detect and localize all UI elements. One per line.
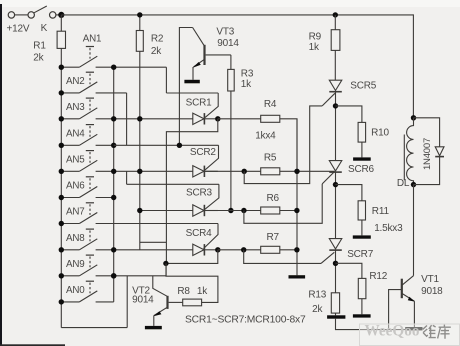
wire right rail drop [412, 14, 414, 117]
wire SCR1 gate hook [205, 93, 218, 118]
node SCR4 cathode [215, 247, 220, 252]
node key-bus junction row 4 [111, 143, 116, 148]
svg-text:1k: 1k [309, 42, 320, 53]
node bus junction AN1 [59, 65, 64, 70]
pushbutton switch AN3 [61, 118, 79, 120]
node bus junction AN8 [59, 247, 64, 252]
wire R3 column [230, 91, 232, 211]
svg-text:VT1: VT1 [421, 274, 439, 285]
wire R5 to SCR6 gate point [280, 170, 335, 172]
node key-bus junction row 8 [111, 247, 116, 252]
svg-text:R10: R10 [371, 127, 389, 138]
svg-text:AN7: AN7 [66, 207, 84, 218]
node R2 col SCR3 row [137, 208, 142, 213]
thyristor SCR5 [329, 80, 342, 90]
svg-text:AN1: AN1 [83, 33, 101, 44]
wire R10 bottom [361, 142, 363, 157]
svg-text:R3: R3 [241, 68, 254, 79]
svg-text:SCR5: SCR5 [350, 81, 377, 92]
transistor VT3 [193, 28, 205, 46]
resistor R9 [331, 30, 340, 51]
resistor R11 [358, 201, 365, 220]
svg-text:SCR3: SCR3 [186, 188, 213, 199]
svg-text:R2: R2 [151, 34, 164, 45]
svg-text:VT3: VT3 [216, 26, 234, 37]
wire SCR2 row to SCR5 gate [244, 106, 322, 184]
wire SCR3 cathode to R6 [204, 210, 260, 212]
thyristor SCR3 [193, 205, 204, 216]
svg-text:SCR1~SCR7:MCR100-8x7: SCR1~SCR7:MCR100-8x7 [185, 315, 306, 326]
svg-text:R7: R7 [267, 232, 280, 243]
pushbutton switch AN0 [61, 301, 79, 303]
node link col R7 [294, 247, 299, 252]
node R2 col SCR2 row [137, 169, 142, 174]
svg-text:1k: 1k [241, 79, 252, 90]
svg-text:DL: DL [397, 178, 410, 189]
wire R2 top [139, 15, 141, 31]
svg-text:2k: 2k [312, 304, 323, 315]
resistor R2 [136, 31, 143, 52]
resistor R12 [358, 278, 366, 298]
wire left bus [60, 67, 62, 327]
wire VT3 collector [179, 28, 192, 146]
wire SCR2 cathode to R5 [204, 170, 260, 172]
ground R13 [327, 315, 345, 318]
wire SCR6 gate diagonal [322, 171, 335, 184]
wire SCR3 anode row [140, 210, 193, 212]
node bus junction AN2 [59, 90, 64, 95]
svg-text:R12: R12 [369, 271, 387, 282]
wire bottom-left rail [61, 327, 127, 329]
node SCR2 cathode drop [242, 169, 247, 174]
wire R9 to SCR5 [334, 50, 336, 80]
resistor R8 [183, 299, 202, 306]
wire SCR1 cathode to R4 [218, 118, 261, 120]
inductor DL core line [403, 135, 405, 181]
node key-bus junction row 3 [111, 116, 116, 121]
wire R4 to right column [280, 119, 297, 172]
node link col R6 [294, 208, 299, 213]
svg-text:AN9: AN9 [66, 259, 84, 270]
node SCR7 cathode [333, 261, 338, 266]
svg-text:AN0: AN0 [66, 285, 85, 296]
svg-text:1kx4: 1kx4 [255, 130, 276, 141]
switch K blade [34, 6, 47, 13]
wire SCR7 gate diagonal [321, 252, 334, 263]
wire rail riser to VT2 collector [126, 276, 128, 328]
node key-bus junction row 5 [111, 169, 116, 174]
wire VT1 collector [413, 185, 415, 276]
pushbutton switch AN5 [61, 170, 79, 172]
ground R10 [353, 157, 371, 160]
border left scan edge [0, 4, 2, 346]
svg-text:1.5kx3: 1.5kx3 [374, 223, 403, 234]
pushbutton switch AN8 [61, 249, 79, 251]
transistor VT2 [166, 296, 168, 309]
svg-text:R5: R5 [264, 153, 277, 164]
thyristor SCR4 [193, 244, 204, 255]
svg-text:R9: R9 [309, 32, 322, 43]
wire VT2 collector drop [153, 276, 167, 296]
svg-text:SCR7: SCR7 [347, 249, 374, 260]
node +12V input terminal [8, 12, 14, 18]
wire SCR3 row to SCR6 gate [244, 184, 322, 223]
node key-bus junction row 9 [111, 273, 116, 278]
wire R7 to right column [280, 249, 297, 251]
svg-text:1k: 1k [197, 286, 208, 297]
svg-text:AN5: AN5 [66, 154, 85, 165]
pushbutton switch AN6 [61, 197, 79, 199]
svg-text:R11: R11 [372, 206, 390, 217]
wire VT1 base [389, 290, 402, 330]
ground VT3 emitter [184, 80, 199, 84]
node R9 rail junction [333, 12, 338, 17]
wire SCR2 gate hook [205, 145, 219, 170]
svg-text:AN4: AN4 [66, 128, 85, 139]
wire SCR2 gate line [114, 144, 219, 146]
wire terminal link [15, 14, 28, 16]
wire AN5 jog down [126, 171, 128, 184]
switch K left contact [28, 12, 34, 18]
node R3 to SCR3 row [228, 208, 233, 213]
node DL bottom [411, 182, 416, 187]
svg-text:9014: 9014 [132, 295, 154, 306]
node link junction [163, 261, 168, 266]
inductor DL coil [407, 118, 414, 185]
transistor VT1 [402, 276, 413, 285]
pushbutton switch AN1 [61, 66, 79, 68]
svg-text:AN2: AN2 [66, 76, 84, 87]
node bus junction AN5 [59, 169, 64, 174]
wire SCR5 gate diagonal [322, 93, 335, 106]
svg-text:AN3: AN3 [66, 102, 85, 113]
node SCR5 cathode [333, 103, 338, 108]
wire SCR4 cathode left link [166, 250, 218, 264]
resistor R10 [358, 122, 366, 142]
svg-text:AN8: AN8 [66, 233, 85, 244]
node key bus AN9 [111, 273, 116, 278]
pushbutton switch AN4 [61, 144, 79, 146]
svg-text:K: K [41, 23, 48, 34]
ground R12 [353, 314, 371, 317]
wire SCR7 cathode to R12 [336, 263, 362, 278]
node SCR4 cathode drop [241, 247, 246, 252]
wire SCR5 cathode to R10 [336, 106, 362, 123]
thyristor SCR1 [193, 113, 204, 124]
switch K right contact [50, 12, 56, 18]
svg-text:9014: 9014 [217, 38, 239, 49]
wire top rail [61, 14, 413, 16]
svg-text:SCR1: SCR1 [186, 97, 213, 108]
svg-text:R6: R6 [267, 193, 280, 204]
wire R1 bottom [60, 48, 62, 67]
wire key bus column [113, 67, 115, 302]
wire SCR1 gate line [166, 92, 218, 94]
wire R3 top [230, 55, 232, 70]
wire R9 top [334, 15, 336, 30]
wire R11 bottom [361, 220, 363, 235]
svg-text:SCR4: SCR4 [186, 228, 213, 239]
svg-text:R8: R8 [177, 286, 190, 297]
ground R11 [353, 235, 371, 238]
wire VT2 base [169, 301, 183, 303]
node key-bus junction row 6 [111, 195, 116, 200]
svg-text:SCR6: SCR6 [348, 164, 375, 175]
node R2 col SCR1 row [137, 116, 142, 121]
ground VT2 emitter [145, 326, 162, 329]
thyristor SCR7 [329, 239, 342, 249]
svg-text:2k: 2k [33, 53, 44, 64]
watermark WeeQoo box [360, 324, 460, 346]
node bus junction AN0 [59, 299, 64, 304]
wire VT3 base [206, 54, 231, 56]
ground link column [289, 275, 306, 278]
svg-text:AN6: AN6 [66, 181, 85, 192]
svg-text:1N4007: 1N4007 [422, 138, 433, 170]
svg-text:9018: 9018 [421, 286, 443, 297]
wire R12 bottom [361, 299, 363, 315]
wire R2 column [139, 51, 141, 250]
svg-text:SCR2: SCR2 [190, 147, 217, 158]
thyristor SCR6 [329, 161, 342, 171]
node key-bus junction row 1 [111, 65, 116, 70]
wire SCR3 gate line [127, 183, 219, 185]
wire SCR1 cathode drop link [166, 119, 217, 264]
svg-text:+12V: +12V [7, 23, 30, 34]
wire R6 to right column [280, 210, 297, 212]
node bus junction AN9 [59, 273, 64, 278]
resistor R4 [261, 115, 280, 122]
pushbutton switch AN9 [61, 275, 79, 277]
wire SCR4 gate hook [204, 224, 219, 249]
node bus junction AN6 [59, 195, 64, 200]
wire link to R8 loop [166, 263, 218, 302]
node VT3 collector to gate line [177, 143, 182, 148]
resistor R6 [261, 207, 280, 214]
svg-text:R4: R4 [264, 99, 277, 110]
pushbutton switch AN7 [61, 223, 79, 225]
wire R1 top [60, 15, 62, 31]
wire SCR3 gate hook [205, 184, 219, 209]
resistor R1 [57, 31, 65, 48]
wire SCR4 cathode to R7 [218, 249, 261, 251]
pushbutton switch AN2 [61, 92, 79, 94]
node link col R5 [294, 169, 299, 174]
resistor R13 [331, 293, 339, 313]
resistor R7 [261, 246, 280, 253]
svg-text:R1: R1 [33, 41, 46, 52]
resistor R3 [228, 69, 235, 91]
thyristor SCR2 [193, 166, 204, 177]
node bus junction AN7 [59, 221, 64, 226]
node SCR3 cathode drop [241, 208, 246, 213]
wire right link column [296, 119, 298, 275]
ground VT1 emitter [405, 327, 422, 330]
wire AN2 jog down [126, 93, 128, 145]
diode 1N4007 loop [414, 118, 440, 185]
node R2 rail junction [137, 12, 142, 17]
wire AN1 jog down [165, 67, 167, 93]
wire K to rail [56, 14, 61, 16]
wire SCR6 cathode to R11 [336, 185, 362, 201]
wire SCR4 row to SCR7 gate [244, 250, 321, 264]
svg-text:R13: R13 [308, 290, 326, 301]
node bus junction AN4 [59, 143, 64, 148]
wire R13 bottom [335, 313, 337, 315]
node bus junction AN3 [59, 116, 64, 121]
wire bottom right rail [336, 319, 423, 330]
diode 1N4007 [435, 147, 444, 156]
border bottom-left scan edge [0, 344, 65, 346]
resistor R5 [261, 168, 280, 175]
svg-text:2k: 2k [151, 46, 162, 57]
wire AN9 row extension [165, 263, 167, 275]
wire R2 column jog [140, 241, 167, 243]
node K junction [58, 12, 64, 18]
svg-text:WeeQoo: WeeQoo [365, 323, 420, 340]
watermark 维库 glyphs [423, 325, 451, 339]
node DL top [411, 115, 416, 120]
node SCR1 cathode [215, 116, 220, 121]
node SCR6 cathode [333, 182, 338, 187]
